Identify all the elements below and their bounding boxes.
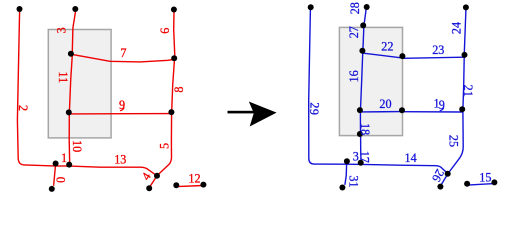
wire edge 5: [157, 113, 171, 175]
wire edge 14: [362, 164, 448, 173]
wire edge 4: [150, 176, 158, 188]
right edge labels (blue): [307, 2, 492, 187]
svg-text:9: 9: [307, 109, 321, 115]
right region rectangle: [339, 27, 402, 135]
wire edge 0: [54, 167, 56, 186]
right graph nodes: [308, 4, 498, 191]
svg-text:7: 7: [120, 46, 126, 60]
svg-text:6: 6: [158, 28, 172, 34]
svg-text:25: 25: [447, 135, 461, 147]
wire edge 8: [172, 61, 175, 112]
wire edge 7: [73, 55, 174, 62]
svg-text:18: 18: [358, 123, 372, 135]
svg-text:11: 11: [56, 71, 70, 83]
wire edge 29: [309, 10, 345, 165]
svg-text:27: 27: [347, 26, 361, 38]
svg-text:0: 0: [54, 177, 68, 183]
svg-text:14: 14: [405, 151, 417, 165]
svg-text:1: 1: [61, 151, 67, 165]
wire edge 22: [363, 53, 402, 58]
wire edge 24: [464, 10, 466, 53]
svg-text:3: 3: [353, 149, 359, 163]
svg-text:5: 5: [158, 143, 172, 149]
left region rectangle: [48, 30, 111, 138]
wire edge 21: [463, 58, 464, 110]
wire edge 2: [17, 11, 54, 166]
wire edge 18: [359, 113, 361, 133]
svg-text:23: 23: [432, 43, 444, 57]
wire edge 28: [364, 10, 366, 23]
wire edge 1: [54, 165, 70, 167]
svg-text:20: 20: [379, 97, 391, 111]
svg-text:8: 8: [172, 87, 186, 93]
left edge labels (red): [16, 27, 201, 185]
wire edge 31: [345, 165, 347, 185]
wire edge 6: [174, 12, 175, 56]
wire edge 20: [361, 111, 402, 113]
label 9 oldstyle descender tail: [120, 108, 124, 111]
wire edge 23: [403, 57, 464, 58]
wire edge 15: [468, 184, 495, 186]
svg-text:3: 3: [55, 27, 69, 33]
svg-text:2: 2: [308, 102, 322, 108]
label 19 digit 9 oldstyle descender tail: [440, 108, 444, 111]
wire edge 25: [448, 112, 463, 174]
arrow between diagrams: [228, 102, 277, 127]
svg-text:26: 26: [429, 167, 447, 184]
left graph nodes: [17, 6, 207, 192]
svg-text:15: 15: [479, 170, 491, 184]
svg-text:10: 10: [70, 140, 84, 152]
wire edge 13: [70, 166, 157, 176]
svg-text:2: 2: [16, 105, 30, 111]
wire edge 27: [362, 28, 365, 51]
svg-text:16: 16: [347, 70, 361, 82]
svg-text:24: 24: [449, 22, 463, 34]
svg-text:28: 28: [348, 2, 362, 14]
wire edge 10: [68, 114, 71, 165]
wire edge 19: [403, 111, 463, 113]
svg-text:31: 31: [346, 175, 360, 187]
wire edge 3: [72, 12, 75, 52]
svg-text:21: 21: [461, 85, 475, 97]
svg-text:12: 12: [188, 172, 200, 186]
wire edge 12: [177, 186, 203, 187]
wire edge 11: [69, 55, 72, 112]
wire edge 9: [69, 113, 171, 115]
wire edge 17: [360, 136, 363, 164]
wire edge 30: [345, 163, 362, 165]
svg-text:17: 17: [358, 151, 372, 163]
wire edge 26: [441, 175, 448, 186]
wire edge 16: [361, 54, 363, 110]
svg-text:13: 13: [114, 153, 126, 167]
svg-text:22: 22: [381, 40, 393, 54]
